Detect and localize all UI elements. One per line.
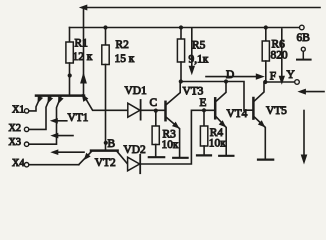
ground bar VT3 emitter	[173, 157, 187, 159]
ground bar R4	[197, 154, 211, 156]
annotation: current-path line along top with left arrowhead	[86, 7, 320, 9]
svg-text:R5: R5	[192, 40, 206, 52]
wire R2 bottom lead down to VT2 base	[105, 65, 107, 150]
input terminal X1 with wire and emitter of VT1	[24, 109, 28, 113]
svg-text:X3: X3	[9, 137, 21, 148]
node C junction dot	[154, 109, 158, 113]
node D junction dot at R5/VT3 collector	[179, 79, 183, 83]
transistor VT5	[252, 98, 255, 119]
terminal: +6V supply	[300, 25, 305, 30]
ground bar VT5 emitter	[258, 159, 273, 161]
annotation: right arrow from D to F	[206, 76, 258, 78]
node B junction dot	[104, 141, 108, 145]
terminal Y output	[295, 80, 300, 85]
svg-text:820: 820	[271, 50, 288, 62]
node E junction dot	[202, 108, 206, 112]
svg-text:15 к: 15 к	[115, 53, 135, 65]
resistor R1	[69, 28, 71, 43]
svg-text:R1: R1	[75, 38, 89, 50]
svg-text:VT4: VT4	[227, 108, 248, 120]
input terminal X2 with wire and emitter of VT1	[24, 127, 28, 131]
ground terminal below 6V	[301, 47, 305, 51]
diode VD1	[128, 103, 140, 117]
wire VD2 cathode along bottom and up to node E	[140, 110, 214, 164]
wire VT1 collector diagonal with arrowhead to VD1 anode wire	[84, 96, 128, 111]
annotation: left arrow at X3 emitter	[58, 151, 84, 153]
junction dot VT4 collector on D run	[224, 79, 228, 83]
junction dot on R1 lead to VT1 base	[68, 73, 72, 77]
transistor VT2 base bar	[91, 149, 118, 152]
wire VT2 collector to VD2 anode	[117, 152, 127, 164]
svg-text:C: C	[150, 97, 158, 109]
svg-text:10к: 10к	[209, 138, 226, 150]
annotation: down arrow at lower right	[303, 111, 305, 156]
transistor VT3	[164, 102, 167, 120]
annotation: vertical current line down to VT1 base with up arrowhead	[83, 8, 85, 96]
svg-text:D: D	[226, 69, 234, 81]
input terminal X3 with wire and emitter of VT1	[24, 142, 28, 146]
resistor R5	[179, 25, 183, 29]
resistor R4	[203, 110, 205, 126]
svg-text:12 к: 12 к	[73, 51, 93, 63]
svg-text:VD1: VD1	[125, 85, 147, 97]
svg-text:VD2: VD2	[124, 144, 146, 156]
svg-text:6В: 6В	[297, 32, 311, 44]
diode VD2	[128, 157, 140, 171]
input terminal X4 with wire	[24, 163, 28, 167]
svg-text:VT2: VT2	[95, 157, 116, 169]
svg-text:Y: Y	[287, 69, 295, 81]
resistor R2	[103, 25, 107, 29]
transistor VT1 base bar	[36, 94, 84, 97]
wire node D run from R5 to VT5 base	[181, 82, 253, 111]
wire node F to output Y	[265, 81, 294, 83]
svg-text:X4: X4	[12, 158, 24, 169]
svg-text:F: F	[270, 71, 276, 83]
svg-text:B: B	[108, 138, 116, 150]
ground bar R3	[149, 156, 164, 158]
svg-text:VT3: VT3	[183, 86, 204, 98]
annotation: down arrow through R5 into node D	[191, 28, 193, 67]
transistor VT4	[214, 98, 217, 118]
node F junction dot	[263, 80, 267, 84]
wire VT2 emitter to X4	[79, 152, 91, 165]
annotation: left arrow below Y output	[306, 91, 325, 93]
annotation: left arrow at X1 emitter	[57, 120, 66, 122]
svg-text:E: E	[200, 97, 207, 109]
annotation: left arrow at X2 emitter	[58, 135, 73, 137]
svg-text:R2: R2	[116, 39, 130, 51]
annotation: down arrow through R6 into node F	[281, 29, 283, 76]
svg-text:VT1: VT1	[68, 112, 89, 124]
resistor R3	[155, 111, 157, 126]
svg-text:X2: X2	[9, 123, 21, 134]
ground bar VT4 emitter	[219, 155, 233, 157]
wire: +6V power rail	[70, 27, 300, 29]
svg-text:10к: 10к	[162, 139, 179, 151]
svg-text:X1: X1	[12, 104, 24, 115]
resistor R6	[264, 25, 268, 29]
svg-text:VT5: VT5	[266, 105, 287, 117]
